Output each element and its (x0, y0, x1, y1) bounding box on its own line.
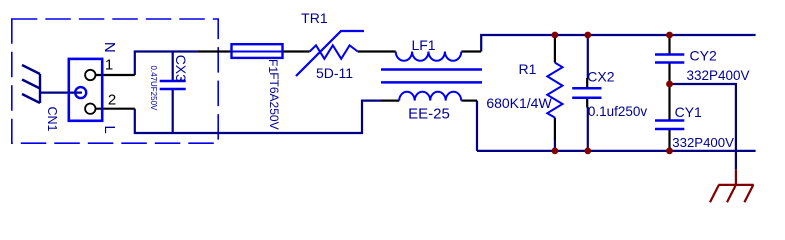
svg-text:680K1/4W: 680K1/4W (486, 95, 552, 111)
svg-text:N: N (101, 42, 118, 53)
svg-text:FT6A250V: FT6A250V (267, 72, 281, 129)
svg-text:2: 2 (108, 92, 116, 109)
svg-text:332P400V: 332P400V (672, 135, 734, 150)
svg-text:F1: F1 (266, 59, 280, 73)
svg-text:0.1uf250v: 0.1uf250v (588, 104, 648, 119)
svg-text:L: L (101, 125, 118, 133)
svg-text:R1: R1 (519, 61, 537, 77)
svg-text:0.47UF250V: 0.47UF250V (149, 65, 158, 111)
svg-text:CX3: CX3 (173, 55, 189, 82)
svg-text:332P400V: 332P400V (687, 68, 750, 83)
svg-text:EE-25: EE-25 (408, 105, 450, 122)
svg-text:CX2: CX2 (587, 68, 614, 84)
svg-text:CY1: CY1 (675, 104, 702, 120)
svg-text:5D-11: 5D-11 (316, 65, 353, 81)
svg-text:CN1: CN1 (45, 106, 59, 131)
svg-text:CY2: CY2 (690, 48, 717, 64)
svg-text:1: 1 (105, 57, 113, 74)
svg-text:TR1: TR1 (301, 10, 328, 26)
svg-text:LF1: LF1 (411, 37, 435, 53)
